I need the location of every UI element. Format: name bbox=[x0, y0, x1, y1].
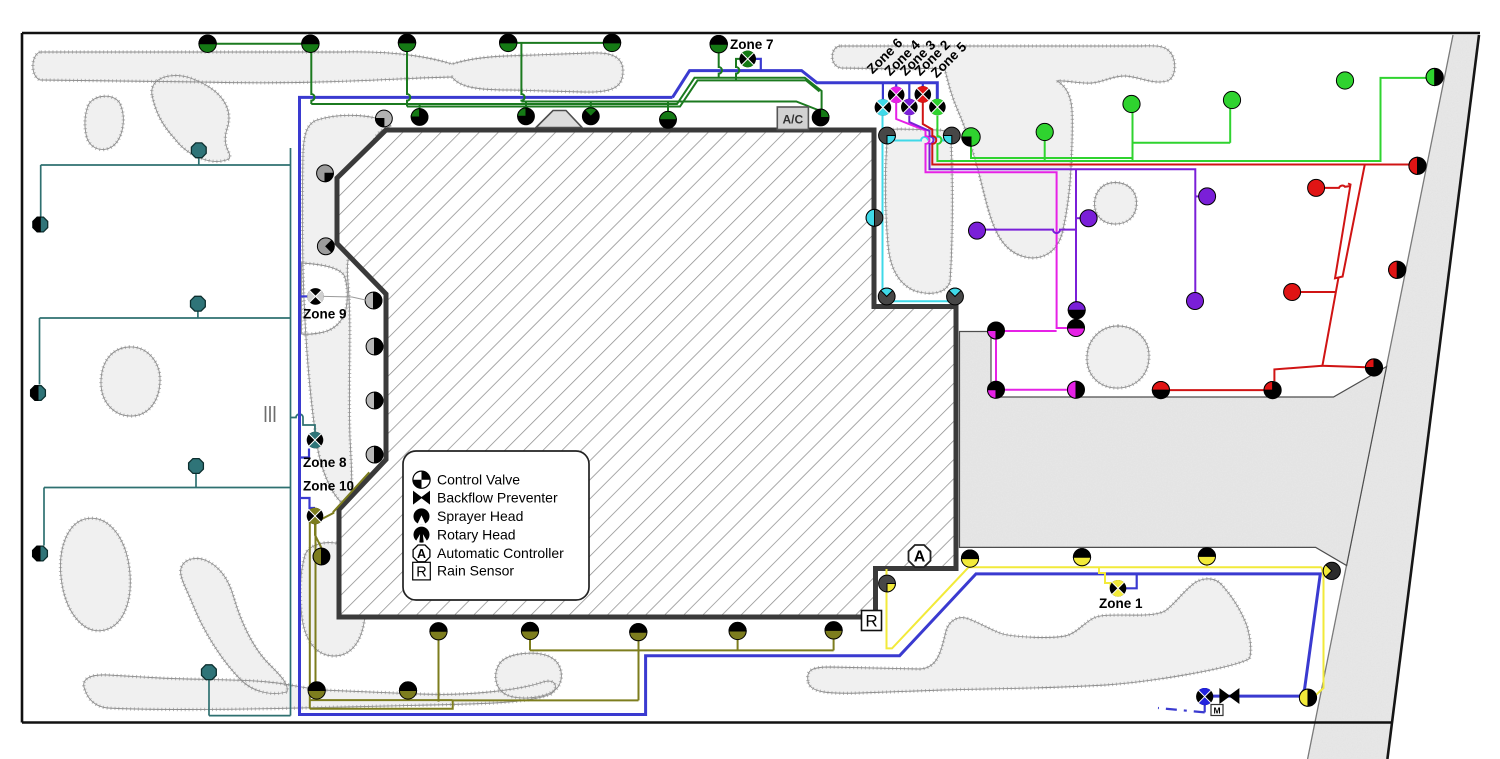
head red half right1 bbox=[1409, 157, 1426, 174]
wire teal main vertical bbox=[290, 148, 292, 716]
wire cyan pocket floor lateral bbox=[883, 300, 956, 302]
head olive O4 bbox=[729, 622, 746, 639]
bed: blob left of building bottom corner outline bbox=[300, 543, 365, 656]
bed: top long strip fill bbox=[33, 52, 623, 92]
head teal oct 4 bbox=[202, 665, 217, 680]
wire teal lateral 3 bbox=[44, 487, 291, 489]
wire blue stub zone9 valve bbox=[300, 295, 308, 297]
bed: blob right of blue corner bottom fill bbox=[496, 653, 562, 698]
head teal oct 1 bbox=[191, 143, 206, 158]
svg-text:Rain Sensor: Rain Sensor bbox=[437, 563, 514, 579]
bed: blob left of building bottom corner fill bbox=[300, 543, 365, 656]
wire teal lateral 1 bbox=[41, 164, 291, 166]
bed: bottom horizontal strip outline bbox=[84, 675, 556, 710]
bed: bottom-right wavy outline bbox=[808, 579, 1251, 693]
wire green vert x1132 bbox=[1132, 113, 1134, 162]
bed: bottom-right wavy fill bbox=[808, 579, 1251, 693]
wire green main bbox=[937, 78, 1427, 161]
wire teal lateral 2 bbox=[40, 317, 291, 319]
bed: building left wall hug fill bbox=[302, 115, 391, 505]
wire green vert x1230 bbox=[1229, 109, 1231, 143]
head magenta M3 bbox=[1068, 320, 1085, 337]
wire red bottom lateral bbox=[1161, 389, 1273, 391]
bed notch ticks bbox=[302, 263, 348, 334]
wire magenta bottom lateral bbox=[996, 389, 1068, 391]
wire olive stub 530 bbox=[529, 640, 531, 651]
wire green vert x1044 bbox=[1044, 141, 1046, 162]
bed: circle mid-left outline bbox=[101, 347, 160, 416]
svg-text:M: M bbox=[1213, 706, 1220, 716]
bed: top long strip ticks bbox=[33, 52, 623, 92]
wire blue stub zone2 valve bbox=[922, 83, 924, 87]
head teal oct 2 bbox=[191, 296, 206, 311]
bed: big top-right with tongue outline bbox=[832, 46, 1175, 258]
gate marks ||| bbox=[266, 406, 275, 422]
svg-text:Automatic Controller: Automatic Controller bbox=[437, 545, 564, 561]
bed: diagonal finger ticks bbox=[181, 558, 288, 693]
bed: small blob top-left A fill bbox=[85, 96, 123, 149]
wire blue stub zone7 valve bbox=[756, 59, 761, 71]
head gray corner bbox=[376, 110, 393, 127]
svg-text:Backflow Preventer: Backflow Preventer bbox=[437, 490, 558, 506]
legend control valve symbol bbox=[413, 471, 430, 488]
wire dkgreen lateral B (upper main) bbox=[311, 78, 821, 112]
bed: bottom-left tilted oval fill bbox=[54, 514, 136, 635]
bed: blob right of blue corner bottom ticks bbox=[496, 653, 562, 698]
wire blue stub zone4 valve bbox=[895, 83, 897, 87]
wire yellow right side drop bbox=[1313, 567, 1324, 697]
wire olive diagonal along wall bbox=[316, 472, 369, 522]
head cyan C2 bbox=[943, 127, 960, 144]
bed: circle mid-right fill bbox=[1087, 326, 1149, 388]
parking lot (stippled) bbox=[960, 332, 1387, 566]
wire yellow zone1 valve jog bbox=[1099, 567, 1111, 588]
head wallmount H4 bbox=[366, 446, 383, 463]
head yellow wedge corner bbox=[879, 575, 896, 592]
wire olive valve drop B bbox=[315, 522, 317, 683]
head red corner bbox=[1365, 359, 1382, 376]
control valve zone7 (dark green) bbox=[739, 51, 756, 68]
svg-text:A/C: A/C bbox=[782, 113, 803, 127]
head zone7 R3 bbox=[398, 34, 415, 51]
head magenta M2 bbox=[988, 381, 1005, 398]
control valve zone10 (olive) bbox=[307, 508, 324, 525]
wire magenta vertical x996 bbox=[995, 335, 997, 386]
wire teal oct stub 3 bbox=[195, 473, 197, 488]
wire cyan top lateral bbox=[883, 137, 948, 140]
control valve zone5 (green) bbox=[929, 99, 946, 116]
bed: bottom-left tilted oval ticks bbox=[54, 514, 136, 635]
bed: small blob top-left B (peanut) fill bbox=[152, 76, 230, 162]
border left bbox=[21, 33, 24, 723]
head zone7 R2 bbox=[302, 35, 319, 52]
head magenta M1 bbox=[988, 322, 1005, 339]
wire yellow from building corner bbox=[887, 567, 1322, 648]
head wall W2 bbox=[518, 108, 535, 125]
bed: circle mid-right outline bbox=[1087, 326, 1149, 388]
svg-text:Control Valve: Control Valve bbox=[437, 472, 520, 488]
head cyan C1 bbox=[879, 127, 896, 144]
legend rotary head symbol bbox=[414, 527, 430, 543]
head wallmount H3 bbox=[366, 392, 383, 409]
head wall W5 (A/C) bbox=[812, 109, 829, 126]
bed notch at zone9 (white) bbox=[302, 263, 348, 334]
head purple P3 bbox=[1199, 188, 1216, 205]
head yellow Y1 bbox=[961, 550, 978, 567]
wire olive long stub 638 bbox=[638, 641, 640, 700]
svg-text:A: A bbox=[417, 547, 426, 561]
head cyan wallmount bbox=[866, 209, 883, 226]
head olive side bbox=[313, 548, 330, 565]
bed: bottom-right wavy ticks bbox=[808, 579, 1251, 693]
wire blue stub zone8 valve bbox=[300, 449, 310, 458]
yellow zone 1 pipes bbox=[887, 565, 1324, 698]
meter label M box bbox=[1211, 705, 1223, 716]
road (right diagonal band) bbox=[1308, 35, 1479, 759]
bed: small blob top-left B (peanut) ticks bbox=[152, 76, 230, 162]
wire dkgreen lateral A (head lateral) bbox=[521, 102, 820, 112]
wire yellow head stub 1082 bbox=[1081, 566, 1083, 568]
svg-text:Rotary Head: Rotary Head bbox=[437, 527, 516, 543]
svg-text:Zone 1: Zone 1 bbox=[1099, 596, 1143, 611]
wire red main bbox=[923, 103, 1410, 165]
svg-text:Zone 8: Zone 8 bbox=[303, 455, 347, 470]
head purple P4 bbox=[1187, 293, 1204, 310]
head magenta M4 bbox=[1068, 381, 1085, 398]
head wallmount H1 bbox=[365, 292, 382, 309]
head zone7 R1 bbox=[199, 35, 216, 52]
head purple P2 bbox=[1080, 210, 1097, 227]
head teal halfoct 1 bbox=[33, 217, 48, 232]
bed: bottom-left tilted oval outline bbox=[54, 514, 136, 635]
wire dkgreen drop x521 bbox=[521, 43, 524, 102]
wire dkgreen drop x311 bbox=[311, 44, 314, 104]
head red half right2 bbox=[1389, 261, 1406, 278]
wire blue stub zone6 valve bbox=[882, 83, 884, 100]
legend automatic controller symbol bbox=[413, 545, 430, 562]
wire magenta main bbox=[896, 103, 1067, 328]
svg-text:R: R bbox=[865, 612, 877, 631]
head olive O5 bbox=[825, 622, 842, 639]
bright green zone 5 pipes bbox=[937, 78, 1427, 161]
head yellow Y2 bbox=[1073, 549, 1090, 566]
wire teal oct stub 1 bbox=[198, 157, 200, 165]
wire dkgreen wallhead stub 526 bbox=[525, 102, 527, 110]
wire dkgreen lateral C (second main) bbox=[407, 80, 820, 106]
wire olive lateral A bbox=[310, 699, 453, 701]
border top bbox=[22, 32, 1480, 35]
wire olive stub 737 bbox=[737, 640, 739, 651]
bed: pocket interior fill bbox=[885, 129, 952, 293]
bed: pocket interior ticks bbox=[885, 129, 952, 293]
bed notch outline bbox=[302, 263, 348, 334]
bed: building left wall hug ticks bbox=[302, 115, 391, 505]
bed: bottom horizontal strip ticks bbox=[84, 675, 556, 710]
legend sprayer head symbol bbox=[414, 508, 430, 524]
head zone7 R4 bbox=[500, 34, 517, 51]
head zone7 R5 bbox=[603, 34, 620, 51]
rain sensor symbol R bbox=[862, 611, 882, 631]
svg-text:A: A bbox=[914, 549, 926, 566]
wire yellow head stub 1206 bbox=[1206, 565, 1208, 567]
wire olive head stub 316 bbox=[316, 698, 318, 700]
connector zone9 valve to wall bbox=[324, 296, 366, 300]
head teal halfoct 3 bbox=[33, 546, 48, 561]
wire magenta branch heads row1 bbox=[1005, 330, 1057, 332]
wire red loop down bbox=[1335, 165, 1365, 279]
wire olive stub 833 bbox=[833, 639, 835, 650]
head gray G2 bbox=[317, 238, 334, 255]
wire dkgreen head lateral top2 bbox=[508, 42, 612, 44]
wire dkgreen head lateral top1 bbox=[208, 43, 311, 45]
wire blue stub zone1 valve bbox=[1126, 575, 1137, 588]
bed: pocket interior outline bbox=[885, 129, 952, 293]
roof vent pad on top wall bbox=[536, 111, 582, 128]
wire teal branch to Zone 8 valve bbox=[291, 414, 316, 431]
wire green lateral y143 bbox=[1133, 142, 1231, 144]
head green full 3 bbox=[1223, 91, 1240, 108]
head teal oct 3 bbox=[189, 459, 204, 474]
control valve zone9 (gray) bbox=[307, 288, 324, 305]
bed: top long strip outline bbox=[33, 52, 623, 92]
wire cyan valve drop bbox=[882, 116, 884, 301]
control valve zone4 (magenta) bbox=[888, 86, 905, 103]
svg-text:R: R bbox=[416, 564, 426, 580]
wire red head stub 1292 bbox=[1301, 291, 1336, 293]
bed: small blob top-left A outline bbox=[85, 96, 123, 149]
wire red head stub 1316 bbox=[1325, 186, 1351, 188]
backflow preventer bowtie bbox=[1220, 689, 1239, 703]
legend bbox=[403, 451, 589, 600]
magenta zone 4 pipes bbox=[896, 103, 1067, 390]
bed: small circle near top-right ticks bbox=[1094, 183, 1136, 225]
head olive O1 bbox=[430, 623, 447, 640]
wire dkgreen wallhead stub 419 bbox=[419, 104, 421, 110]
bed: big top-right with tongue fill bbox=[832, 46, 1175, 258]
head red bottom 1 bbox=[1152, 382, 1169, 399]
bed: diagonal finger outline bbox=[181, 558, 288, 693]
head olive O6 bbox=[308, 682, 325, 699]
water meter (blue) bbox=[1196, 688, 1213, 705]
olive zone 10 pipes bbox=[310, 472, 834, 708]
head gray G1 bbox=[317, 165, 334, 182]
wire purple main bbox=[909, 116, 1195, 300]
wire purple heads lateral y230 bbox=[985, 230, 1076, 234]
A/C unit box bbox=[777, 107, 808, 130]
bed: circle mid-left fill bbox=[101, 347, 160, 416]
head red bottom 2 bbox=[1264, 382, 1281, 399]
road right edge line bbox=[1387, 35, 1479, 759]
bed: bottom horizontal strip fill bbox=[84, 675, 556, 710]
wire teal bottom lateral bbox=[209, 715, 291, 717]
wire olive building-bottom lateral bbox=[530, 649, 834, 651]
cyan zone 6 pipes bbox=[883, 116, 956, 301]
blue main line bbox=[300, 71, 1321, 715]
head green full 4 bbox=[1336, 72, 1353, 89]
head wall W3 bbox=[582, 108, 599, 125]
head wall W4 bbox=[660, 111, 677, 128]
wire teal oct stub bottom bbox=[208, 680, 210, 716]
head green full 2 bbox=[1123, 95, 1140, 112]
wire dkgreen drop x407 bbox=[407, 43, 410, 107]
red zone 2 pipes bbox=[923, 103, 1410, 391]
bed: building left wall hug outline bbox=[302, 115, 391, 505]
head wall W1 bbox=[411, 109, 428, 126]
wire teal left drop 2 bbox=[39, 318, 41, 385]
bed: blob right of blue corner bottom outline bbox=[496, 653, 562, 698]
control valve zone2 (red) bbox=[915, 86, 932, 103]
head green half right bbox=[1426, 68, 1443, 85]
head cyan C4 bbox=[947, 288, 964, 305]
control valve zone1 (yellow) bbox=[1110, 580, 1127, 597]
bed: small blob top-left A ticks bbox=[85, 96, 123, 149]
wire blue dash-dot service line bbox=[1158, 708, 1205, 712]
bed: small blob top-left B (peanut) outline bbox=[152, 76, 230, 162]
bed: circle mid-right ticks bbox=[1087, 326, 1149, 388]
wire blue stub zone3 valve bbox=[908, 83, 910, 100]
control valve zone3 (purple) bbox=[901, 99, 918, 116]
wire blue water meter stub bbox=[1204, 704, 1206, 712]
head red full 2 bbox=[1284, 284, 1301, 301]
head green wedge bbox=[962, 128, 980, 146]
wire teal oct stub 2 bbox=[197, 311, 199, 319]
purple zone 3 pipes bbox=[909, 116, 1199, 309]
wire teal left drop 1 bbox=[40, 165, 42, 217]
wire olive lateral B bbox=[310, 700, 453, 709]
bed: small circle near top-right outline bbox=[1094, 183, 1136, 225]
wire blue stub zone10 valve bbox=[300, 498, 316, 508]
legend rain sensor symbol bbox=[413, 562, 431, 580]
wire olive valve drop A bbox=[309, 522, 311, 709]
wire green second line bbox=[971, 146, 1133, 159]
wire olive lateral C bbox=[453, 699, 639, 701]
head wallmount H2 bbox=[366, 338, 383, 355]
head green full 1 bbox=[1036, 123, 1053, 140]
head olive O2 bbox=[521, 622, 538, 639]
bed: blob left of building bottom corner ticks bbox=[300, 543, 365, 656]
control valve zone6 (cyan) bbox=[875, 99, 892, 116]
head yellow wedge right bbox=[1323, 562, 1340, 579]
head zone7 R6 (next to label) bbox=[710, 36, 727, 53]
wire purple vertical x1076 bbox=[1075, 169, 1077, 309]
wire purple stub head 1207 bbox=[1195, 195, 1199, 197]
control valve zone8 (teal) bbox=[307, 432, 324, 449]
wire dkgreen wallhead stub 668 bbox=[667, 102, 669, 113]
dark green zone 7 pipes bbox=[208, 43, 822, 112]
head yellow bottom bbox=[1299, 689, 1316, 706]
head red full 1 bbox=[1308, 179, 1325, 196]
bed: big top-right with tongue ticks bbox=[832, 46, 1175, 258]
head purple half bbox=[1068, 302, 1085, 319]
head purple P1 bbox=[969, 222, 986, 239]
svg-text:Zone 7: Zone 7 bbox=[730, 37, 774, 52]
wire blue main top horizontal bbox=[300, 97, 1321, 714]
head olive O3 bbox=[630, 624, 647, 641]
svg-text:Zone 10: Zone 10 bbox=[303, 479, 354, 494]
wire olive stub to head 327 bbox=[315, 524, 322, 548]
teal zone pipes (left side) bbox=[40, 148, 316, 716]
road left edge line bbox=[1308, 35, 1453, 759]
wire olive long stub 438 bbox=[438, 640, 440, 702]
legend backflow preventer symbol bbox=[414, 492, 430, 504]
bed: circle mid-left ticks bbox=[101, 347, 160, 416]
wire purple stub head 1088 bbox=[1076, 217, 1081, 219]
automatic controller symbol A bbox=[909, 545, 931, 567]
head yellow Y3 bbox=[1198, 548, 1215, 565]
building bbox=[337, 111, 956, 618]
wire red continuation to bottom bbox=[1322, 278, 1374, 368]
wire dkgreen zone7 valve stub bbox=[736, 59, 740, 81]
wire blue diagonal to valve cluster bbox=[673, 71, 938, 99]
border bottom bbox=[22, 721, 1392, 724]
head cyan C3 bbox=[878, 288, 895, 305]
wire dkgreen wallhead stub 590 bbox=[590, 102, 592, 110]
wire dkgreen zone7 head stub bbox=[719, 52, 722, 78]
svg-text:Sprayer Head: Sprayer Head bbox=[437, 508, 523, 524]
wire teal left drop 3 bbox=[43, 488, 45, 546]
bed: diagonal finger fill bbox=[181, 558, 288, 693]
bed: small circle near top-right fill bbox=[1094, 183, 1136, 225]
wire red branch to bottom row bbox=[1274, 366, 1322, 381]
planting beds bbox=[33, 46, 1251, 710]
svg-text:Zone 9: Zone 9 bbox=[303, 307, 347, 322]
head teal halfoct 2 bbox=[31, 386, 46, 401]
head olive O7 bbox=[399, 682, 416, 699]
